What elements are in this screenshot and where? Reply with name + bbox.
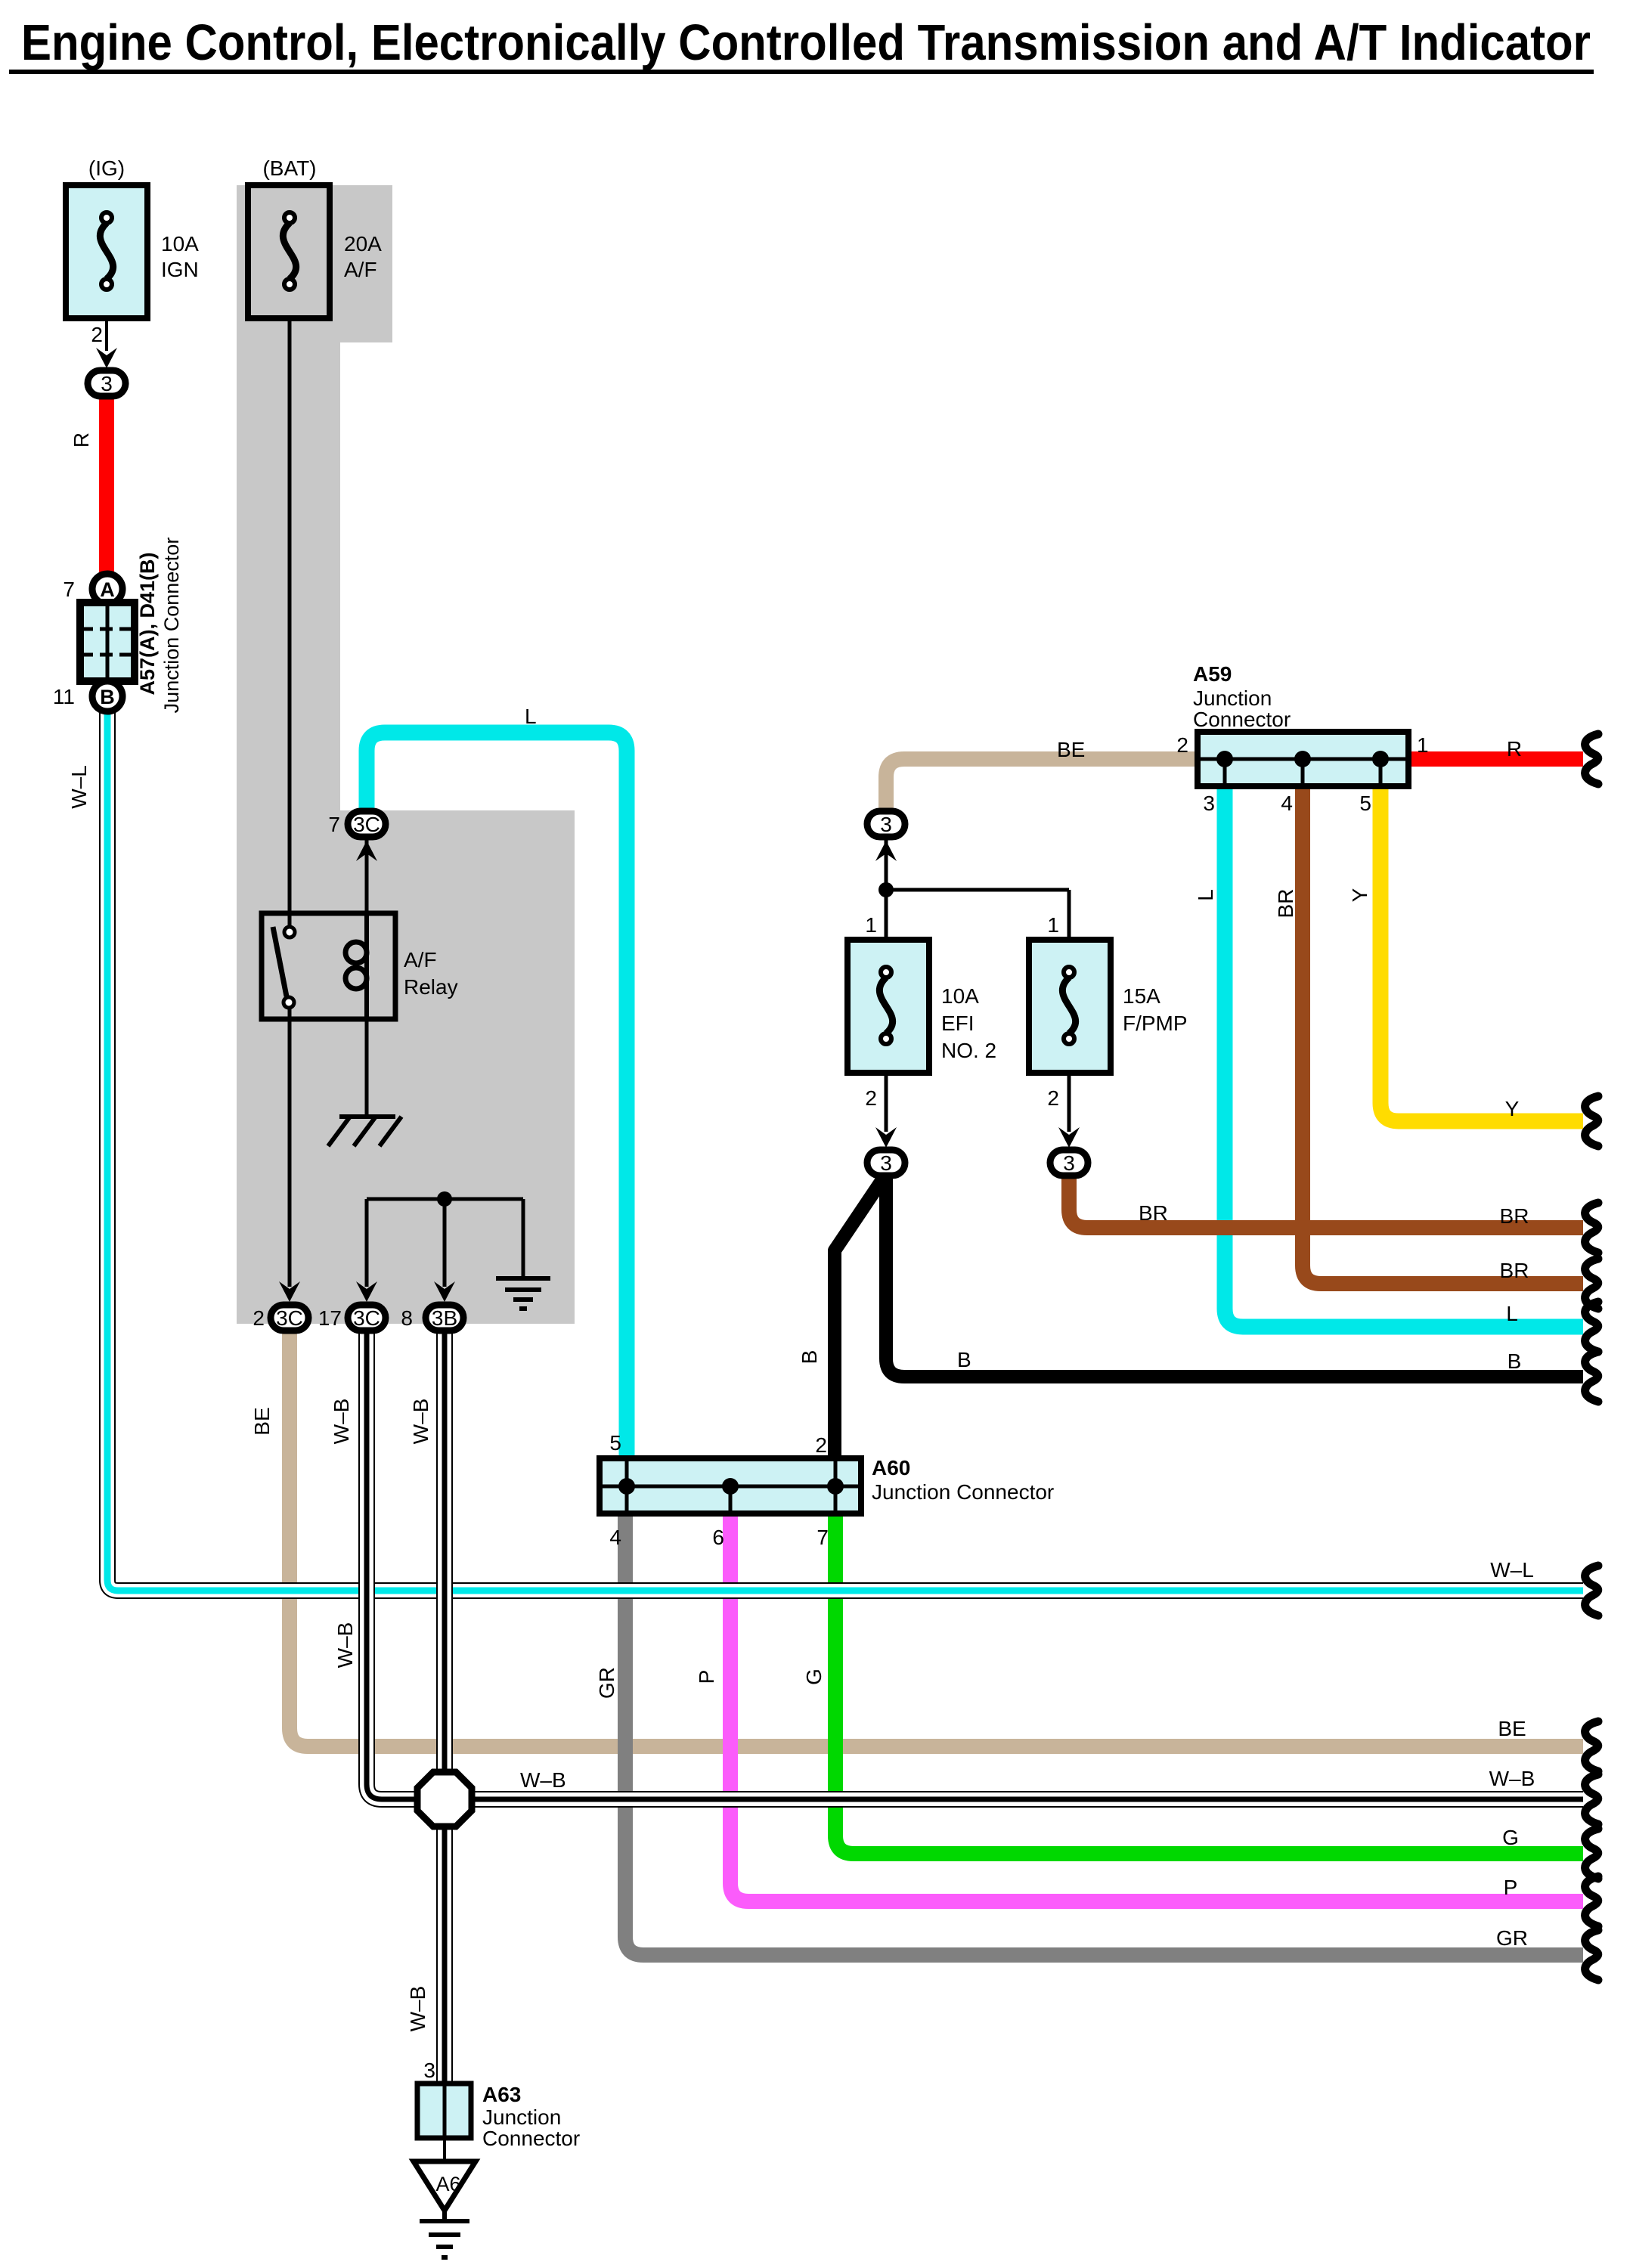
- svg-text:Junction Connector: Junction Connector: [872, 1480, 1054, 1504]
- wire fuse EFI NO.2 pin 2 lead: [885, 1071, 888, 1132]
- svg-text:11: 11: [53, 685, 75, 708]
- wire BR from connector 3 to right edge: [1069, 1176, 1583, 1228]
- junction connector A57(A) D41(B) box: [80, 603, 135, 681]
- svg-text:BR: BR: [1139, 1201, 1168, 1225]
- svg-text:7: 7: [816, 1526, 829, 1549]
- svg-text:G: G: [802, 1668, 826, 1685]
- arrow into connector 2-3C: [279, 1281, 300, 1302]
- svg-text:6: 6: [712, 1526, 724, 1549]
- svg-text:Engine Control, Electronically: Engine Control, Electronically Controlle…: [21, 14, 1591, 71]
- svg-text:2: 2: [1176, 733, 1188, 757]
- arrow into connector 8-3B: [434, 1281, 455, 1302]
- svg-text:3B: 3B: [432, 1306, 457, 1330]
- junction node on ground branch: [437, 1191, 452, 1207]
- svg-text:3C: 3C: [353, 813, 380, 836]
- relay A/F Relay: [262, 913, 395, 1019]
- svg-text:BR: BR: [1500, 1259, 1529, 1282]
- connector 3 below EFI fuse: [867, 1150, 905, 1176]
- junction node fuse feed: [878, 882, 894, 897]
- wire W-B continuation squiggle: [1585, 1774, 1598, 1824]
- wire BE continuation squiggle: [1585, 1721, 1598, 1771]
- svg-text:A59: A59: [1193, 662, 1232, 686]
- svg-text:W–B: W–B: [1489, 1767, 1535, 1790]
- svg-text:3: 3: [1063, 1151, 1075, 1175]
- svg-text:8: 8: [401, 1306, 413, 1330]
- svg-text:2: 2: [865, 1086, 877, 1110]
- ground body type below relay coil: [328, 1117, 401, 1146]
- junction connector pin B: [92, 681, 122, 711]
- svg-text:Junction Connector: Junction Connector: [160, 538, 183, 714]
- octagon splice junction: [417, 1772, 472, 1826]
- wire BE to A59 pin 2: [886, 759, 1199, 808]
- svg-text:Connector: Connector: [1193, 708, 1291, 731]
- fuse 15A F/PMP: [1029, 940, 1111, 1073]
- svg-text:5: 5: [609, 1431, 621, 1455]
- wire fuse IGN lead: [105, 318, 108, 351]
- svg-text:4: 4: [1281, 792, 1293, 815]
- svg-text:3: 3: [423, 2059, 435, 2082]
- wire branch down to fuse F/PMP pin 1: [1067, 890, 1071, 940]
- wire branch to connector 8-3B: [443, 1199, 447, 1287]
- svg-text:1: 1: [865, 913, 877, 937]
- connector 2-3C: [271, 1305, 308, 1331]
- wire branch to body ground: [522, 1199, 525, 1278]
- svg-text:20A: 20A: [344, 232, 382, 256]
- svg-text:W–B: W–B: [330, 1399, 353, 1445]
- svg-text:3C: 3C: [276, 1306, 303, 1330]
- svg-text:B: B: [798, 1350, 821, 1365]
- wire branch to fuse F/PMP: [886, 888, 1069, 892]
- svg-text:3C: 3C: [353, 1306, 380, 1330]
- wire R from A59 pin 1 to right edge: [1408, 751, 1583, 767]
- arrow into connector 3 (IGN): [96, 348, 117, 368]
- connector 3 below IGN fuse: [88, 370, 125, 396]
- svg-text:W–B: W–B: [520, 1768, 566, 1792]
- svg-text:3: 3: [1203, 792, 1215, 815]
- svg-text:F/PMP: F/PMP: [1123, 1012, 1188, 1035]
- svg-text:G: G: [1502, 1826, 1519, 1849]
- svg-text:R: R: [70, 432, 93, 448]
- svg-text:10A: 10A: [161, 232, 199, 256]
- arrow into connector 17-3C: [356, 1281, 377, 1302]
- svg-text:L: L: [1194, 889, 1217, 901]
- svg-text:1: 1: [1047, 913, 1059, 937]
- svg-text:P: P: [695, 1670, 718, 1684]
- connector 17-3C: [348, 1305, 386, 1331]
- svg-text:5: 5: [1359, 792, 1371, 815]
- junction connector A63: [417, 2084, 471, 2138]
- wire B to A60 pin 2: [835, 1176, 885, 1458]
- connector 3 above EFI fuse: [867, 811, 905, 837]
- wire GR from A60 pin 4 to right edge: [625, 1514, 1583, 1955]
- svg-text:W–B: W–B: [406, 1986, 429, 2032]
- svg-text:W–L: W–L: [1490, 1558, 1534, 1582]
- wire L continuation squiggle: [1585, 1302, 1598, 1352]
- svg-text:BE: BE: [250, 1407, 274, 1435]
- svg-text:IGN: IGN: [161, 258, 199, 281]
- wire fuse F/PMP pin 2 lead: [1067, 1071, 1071, 1132]
- svg-text:GR: GR: [595, 1667, 618, 1699]
- wire ground branch horizontal: [367, 1198, 523, 1201]
- svg-text:W–L: W–L: [67, 765, 91, 809]
- ground earth symbol below A6: [420, 2211, 469, 2257]
- fuse 10A EFI NO. 2: [847, 940, 929, 1073]
- svg-text:GR: GR: [1496, 1926, 1528, 1950]
- wire BR from A59 pin 4 to right edge: [1303, 786, 1583, 1284]
- arrow into connector 3 (EFI feed): [875, 841, 897, 861]
- svg-text:15A: 15A: [1123, 984, 1160, 1008]
- svg-text:2: 2: [91, 323, 103, 346]
- connector 3 below F/PMP fuse: [1050, 1150, 1088, 1176]
- wire W-B from octagon to A63: [436, 1822, 453, 2084]
- wire R continuation squiggle: [1585, 734, 1598, 784]
- svg-text:Connector: Connector: [482, 2127, 580, 2150]
- svg-text:4: 4: [609, 1526, 621, 1549]
- svg-text:B: B: [1508, 1349, 1522, 1373]
- wire R from connector 3 to junction connector A: [99, 397, 114, 575]
- junction connector A60: [600, 1458, 861, 1514]
- wire BE from connector 2-3C to right edge: [290, 1331, 1583, 1746]
- svg-text:2: 2: [1047, 1086, 1059, 1110]
- svg-text:L: L: [525, 705, 537, 728]
- wire W-B from octagon to right edge: [469, 1791, 1583, 1808]
- wire relay coil to ground: [365, 1019, 369, 1117]
- wire B from connector 3 to right edge: [886, 1176, 1583, 1377]
- svg-text:Y: Y: [1505, 1097, 1520, 1120]
- wire BR continuation squiggle: [1585, 1259, 1598, 1309]
- wire W-B from connector 8-3B to octagon: [436, 1333, 453, 1777]
- svg-text:17: 17: [318, 1306, 342, 1330]
- svg-text:P: P: [1504, 1876, 1518, 1899]
- title underline: [9, 70, 1594, 74]
- svg-text:A/F: A/F: [404, 948, 437, 971]
- svg-text:R: R: [1507, 737, 1522, 761]
- svg-text:A57(A), D41(B): A57(A), D41(B): [136, 552, 159, 695]
- svg-text:Y: Y: [1348, 888, 1371, 902]
- wire Y continuation squiggle: [1585, 1096, 1598, 1146]
- svg-text:B: B: [100, 686, 115, 708]
- ground point A6: [414, 2161, 476, 2211]
- svg-text:10A: 10A: [941, 984, 979, 1008]
- arrow into connector 3 (below F/PMP fuse): [1058, 1127, 1080, 1148]
- wire connector 3 to fuse EFI NO.2: [885, 839, 888, 940]
- svg-text:B: B: [957, 1348, 971, 1371]
- wire G from A60 pin 7 to right edge: [835, 1514, 1583, 1854]
- wire P from A60 pin 6 to right edge: [730, 1514, 1583, 1901]
- svg-text:W–B: W–B: [333, 1622, 357, 1668]
- svg-text:A: A: [100, 578, 115, 601]
- fuse 20A A/F: [248, 185, 330, 318]
- wire connector 7-3C to relay coil: [365, 839, 369, 940]
- fuse 10A IGN: [66, 185, 147, 318]
- junction connector pin A: [92, 574, 122, 604]
- ground earth type on branch: [496, 1278, 550, 1309]
- wire branch to connector 17-3C: [365, 1199, 369, 1287]
- svg-text:BR: BR: [1274, 889, 1297, 919]
- svg-text:1: 1: [1417, 733, 1429, 757]
- gray harness overlay region: [237, 185, 575, 1324]
- svg-text:BR: BR: [1500, 1204, 1529, 1228]
- wire GR continuation squiggle: [1585, 1930, 1598, 1980]
- wire relay contact to connector 2-3C: [288, 1002, 292, 1287]
- wire G continuation squiggle: [1585, 1829, 1598, 1879]
- svg-text:Relay: Relay: [404, 975, 458, 999]
- svg-text:3: 3: [880, 813, 892, 836]
- svg-text:A63: A63: [482, 2083, 521, 2106]
- svg-text:EFI: EFI: [941, 1012, 975, 1035]
- junction connector A59: [1198, 732, 1408, 786]
- wire fuse A/F to relay contact: [288, 318, 292, 932]
- svg-text:NO. 2: NO. 2: [941, 1039, 996, 1062]
- svg-text:2: 2: [253, 1306, 265, 1330]
- wire W-L continuation squiggle: [1585, 1566, 1598, 1616]
- svg-text:BE: BE: [1057, 738, 1085, 761]
- wire L from connector 7-3C to A60 pin 5: [367, 733, 627, 1458]
- wire B continuation squiggle: [1585, 1352, 1598, 1402]
- svg-text:Junction: Junction: [482, 2105, 561, 2129]
- svg-text:7: 7: [328, 813, 340, 836]
- svg-text:BE: BE: [1498, 1717, 1526, 1740]
- wire W-B from connector 17-3C to octagon: [367, 1333, 420, 1799]
- svg-text:W–B: W–B: [409, 1399, 432, 1445]
- svg-text:A60: A60: [872, 1456, 910, 1479]
- wire BR continuation squiggle: [1585, 1203, 1598, 1253]
- wire Y from A59 pin 5 to right edge: [1380, 786, 1583, 1121]
- svg-text:7: 7: [63, 578, 75, 601]
- arrow into connector 3 (below EFI fuse): [875, 1127, 897, 1148]
- wire W-L from junction connector B to right edge: [107, 711, 1583, 1591]
- wire A63 to ground A6: [443, 2138, 446, 2162]
- arrow into connector 7-3C: [356, 841, 377, 861]
- svg-text:3: 3: [101, 372, 113, 395]
- wire L from A59 pin 3 to right edge: [1225, 786, 1583, 1327]
- wire P continuation squiggle: [1585, 1876, 1598, 1926]
- svg-text:L: L: [1506, 1302, 1518, 1325]
- svg-text:Junction: Junction: [1193, 686, 1272, 710]
- svg-text:3: 3: [880, 1151, 892, 1175]
- svg-text:A/F: A/F: [344, 258, 377, 281]
- svg-text:(BAT): (BAT): [262, 156, 316, 180]
- svg-text:A6: A6: [435, 2173, 460, 2195]
- connector 8-3B: [426, 1305, 463, 1331]
- connector 7-3C: [348, 811, 386, 837]
- svg-text:2: 2: [815, 1433, 827, 1457]
- svg-text:(IG): (IG): [88, 156, 125, 180]
